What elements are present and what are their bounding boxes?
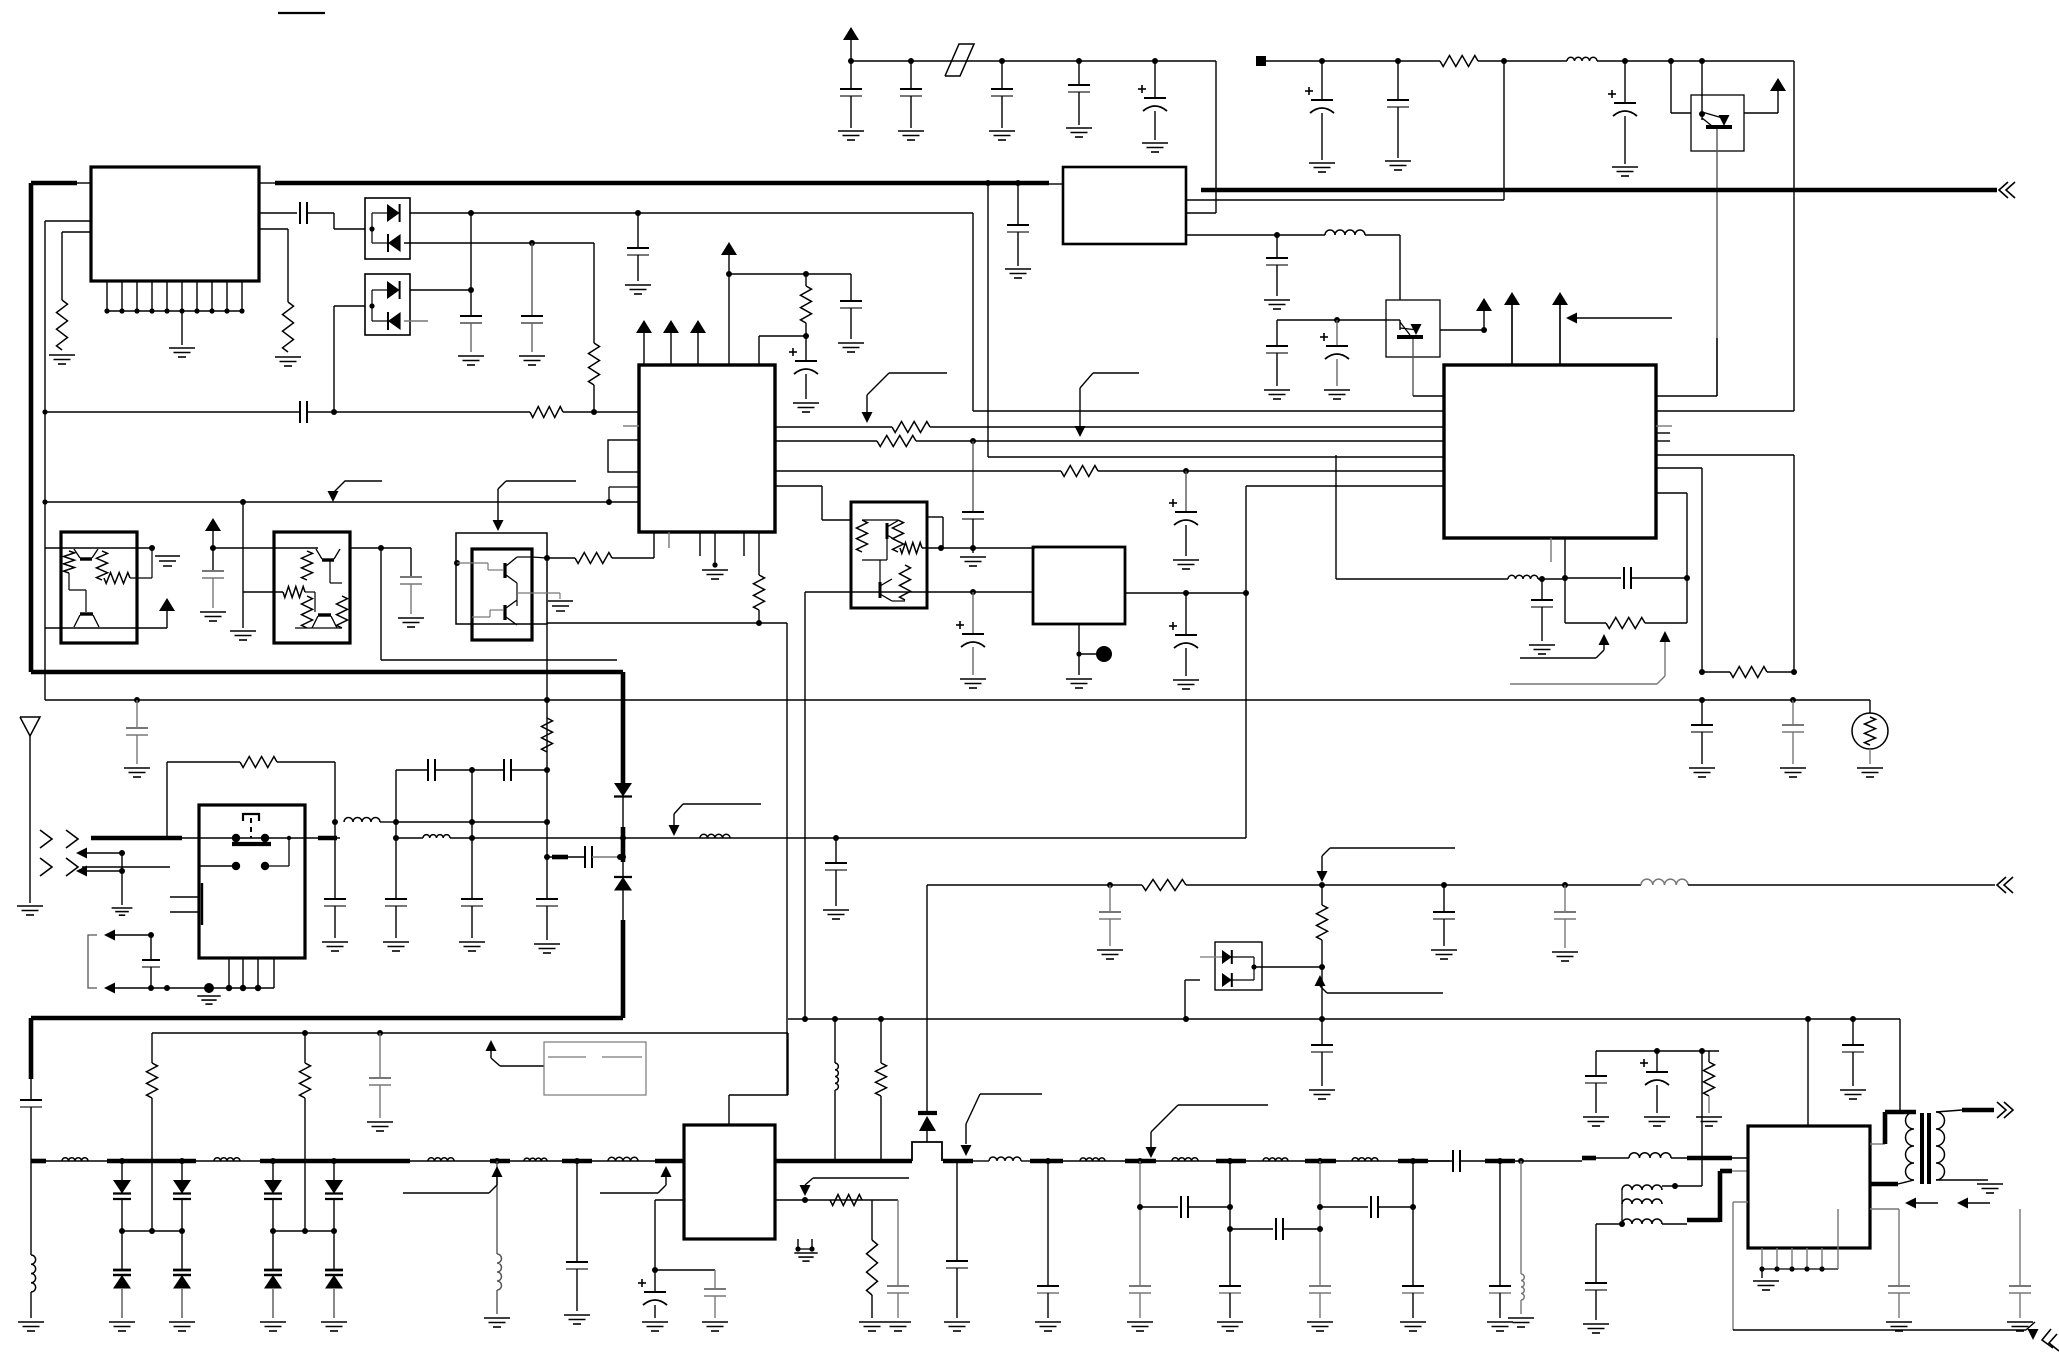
IC U3 xtal box <box>608 440 639 472</box>
tx frame horiz y672 <box>31 670 623 675</box>
connector chevron out-b <box>2042 1329 2059 1351</box>
diode D4 <box>388 312 401 330</box>
ground <box>275 357 301 366</box>
capacitor C27 <box>1782 725 1804 732</box>
wire <box>471 906 473 938</box>
node <box>756 620 762 626</box>
wire <box>654 1270 656 1292</box>
signal arrow callout <box>669 804 762 836</box>
node square marker <box>1256 56 1266 66</box>
power bus right <box>1201 188 1997 193</box>
transistor q51 <box>74 549 98 559</box>
wire U3 pin x654 link <box>653 532 655 558</box>
node <box>240 985 246 991</box>
wire q7 out <box>517 557 547 558</box>
wire <box>181 1231 183 1270</box>
transistor pack Q7 box <box>472 549 532 640</box>
wire y578 b <box>1631 577 1687 579</box>
ground <box>1264 390 1290 399</box>
wire <box>1565 622 1606 624</box>
wire <box>1001 96 1003 128</box>
resistor R10 <box>1061 466 1098 477</box>
wire <box>1761 1269 1763 1278</box>
ground <box>109 1322 135 1331</box>
node <box>1410 1204 1416 1210</box>
node <box>331 1228 337 1234</box>
signal arrow callout <box>961 1094 1043 1156</box>
node <box>494 1158 500 1164</box>
wire <box>1656 1085 1658 1113</box>
wire <box>1185 593 1187 635</box>
wire <box>272 1289 274 1318</box>
wire U6 bot pin <box>811 1239 813 1249</box>
node <box>544 767 550 773</box>
ground <box>1385 161 1411 170</box>
ground <box>18 1322 44 1331</box>
wire <box>1047 1293 1049 1318</box>
wire cap lead <box>1001 61 1003 89</box>
node <box>1045 1158 1051 1164</box>
wire y592 <box>805 591 1033 593</box>
wire vert x62 <box>61 232 63 300</box>
wire cap C13 lead <box>637 213 639 248</box>
vcc arrow <box>636 320 652 340</box>
capacitor C39 <box>1554 912 1576 919</box>
wire diode bus1 <box>122 1230 182 1232</box>
node <box>1774 1266 1779 1271</box>
wire <box>880 1096 882 1161</box>
wire q5 bottom rail <box>45 627 167 629</box>
inductor T1 sec-a <box>1622 1185 1662 1190</box>
wire <box>243 591 283 593</box>
wire rail corner down x1216 <box>1215 61 1217 213</box>
rf out stub <box>1962 1108 1994 1113</box>
capacitor C32 series <box>428 759 435 781</box>
wire U3 left pin y487 <box>609 487 639 502</box>
diode D-334a <box>325 1180 343 1194</box>
wire <box>212 548 214 571</box>
wire <box>1428 1160 1453 1162</box>
node <box>1274 232 1280 238</box>
node <box>1317 1158 1323 1164</box>
capacitor C1 <box>840 89 862 96</box>
wire Q1 right <box>1744 112 1778 114</box>
node <box>1791 669 1797 675</box>
wire rail y1019 <box>788 1018 1900 1020</box>
tx frame horiz y1018 <box>31 1016 623 1021</box>
wire <box>1185 648 1187 676</box>
diode D9 tri <box>919 1116 936 1131</box>
signal arrow callout <box>800 1178 910 1196</box>
vcc arrow <box>663 320 679 340</box>
resistor r <box>900 565 911 600</box>
capacitor C33 series <box>504 759 511 781</box>
node <box>148 985 154 991</box>
capacitor C13 <box>627 248 649 255</box>
resistor R13 <box>542 718 553 752</box>
wire x788 long <box>787 1033 789 1095</box>
rf bar <box>655 1159 684 1164</box>
capacitor C-lad1500 <box>1489 1286 1511 1293</box>
wire x1336 <box>1335 455 1337 579</box>
node <box>1137 1204 1143 1210</box>
node <box>331 1158 337 1164</box>
wire <box>1319 1293 1321 1318</box>
wire y579 <box>1336 578 1508 580</box>
resistor R4 <box>801 286 812 323</box>
wire bus y471 <box>775 470 1061 472</box>
relay contacts row1 <box>232 834 269 842</box>
wire <box>1792 700 1794 725</box>
transistor q62 <box>312 615 337 628</box>
wire bus y457 <box>988 456 1444 458</box>
capacitor C55 <box>1888 1286 1910 1293</box>
capacitor C52 electrolytic <box>1640 1059 1669 1085</box>
transistor pack Q5 box <box>61 532 137 643</box>
wire <box>1412 1161 1414 1286</box>
wire vert x335 <box>333 306 335 412</box>
wire bus thin <box>77 182 91 184</box>
capacitor C51 <box>1585 1076 1607 1083</box>
wire vert x1504 <box>1503 61 1505 200</box>
capacitor C31 <box>461 899 483 906</box>
wire <box>208 988 210 993</box>
wire U4 stub <box>1656 432 1670 434</box>
node <box>468 287 474 293</box>
node <box>1497 1158 1503 1164</box>
wire U4 bottom pin <box>1564 538 1566 578</box>
node <box>1183 590 1189 596</box>
diode D-182a <box>173 1180 191 1194</box>
wire <box>1230 1228 1273 1230</box>
wire <box>972 647 974 675</box>
wire <box>181 1161 183 1180</box>
wire x546 <box>546 700 548 899</box>
node pin junction <box>164 308 169 313</box>
ground <box>367 1122 393 1131</box>
wire <box>121 1289 123 1318</box>
wire q7 gnd tap <box>517 593 560 599</box>
wire x594 top <box>593 243 595 343</box>
wire vert x532 <box>531 243 533 316</box>
wire <box>1645 622 1687 624</box>
IC U7 <box>1748 1126 1870 1248</box>
diode D-334a bar2 <box>325 1198 343 1200</box>
node <box>1481 327 1487 333</box>
capacitor C-lad1048 <box>1037 1286 1059 1293</box>
transistor Q1 <box>1702 112 1732 127</box>
wire <box>942 517 944 548</box>
ground <box>625 285 651 294</box>
diode D9 <box>918 1111 937 1115</box>
capacitor C5 electrolytic <box>1138 85 1167 111</box>
wire <box>1671 1157 1748 1159</box>
wire y623 <box>547 622 787 624</box>
transistor q52 <box>74 614 99 627</box>
ground <box>859 1322 885 1331</box>
wire x1687 <box>1686 493 1688 578</box>
wire <box>150 967 152 988</box>
inductor L19 <box>1263 1158 1288 1161</box>
wire <box>1595 1051 1597 1076</box>
signal arrow callout <box>328 481 383 502</box>
wire <box>576 1161 578 1262</box>
signal arrow <box>1957 1198 1990 1209</box>
capacitor C54 <box>1842 1045 1864 1052</box>
wire <box>547 557 575 559</box>
thick jog a <box>1687 1218 1720 1223</box>
inductor L20 <box>1352 1158 1378 1161</box>
signal arrow callout <box>403 1166 503 1193</box>
relay contact bar <box>232 842 271 846</box>
wire <box>1936 1110 1962 1112</box>
thick feed horiz <box>1885 1110 1916 1115</box>
capacitor C40 <box>369 1078 391 1085</box>
wire <box>1564 578 1566 623</box>
wire U3 top pin <box>670 340 672 365</box>
wire <box>272 1231 274 1270</box>
wire <box>1378 1206 1413 1208</box>
node <box>803 333 809 339</box>
node rail-dot <box>999 58 1005 64</box>
wire <box>1936 1179 1988 1181</box>
resistor R2 <box>57 300 68 350</box>
ground <box>960 679 986 688</box>
wire U1 right pin2 <box>259 228 288 230</box>
node <box>620 854 626 860</box>
wire x1246 <box>1245 486 1247 838</box>
inductor T1 sec-c <box>1622 1219 1662 1224</box>
ground <box>1307 1322 1333 1331</box>
wire <box>1319 1161 1321 1286</box>
diode D8 <box>1222 973 1232 987</box>
wire <box>1538 578 1565 580</box>
wire <box>410 584 412 614</box>
capacitor C37 <box>1099 912 1121 919</box>
wire <box>1520 1161 1522 1274</box>
ground <box>989 131 1015 140</box>
diode D-122b bars <box>113 1270 131 1275</box>
IC U1 <box>91 167 259 281</box>
wire <box>871 1200 873 1240</box>
wire <box>121 853 123 905</box>
wire U5 pin y593 <box>1125 592 1246 594</box>
capacitor C23 electrolytic <box>1169 622 1198 648</box>
wire rail y61 b <box>1266 60 1440 62</box>
node <box>302 1030 308 1036</box>
wire winding link <box>1621 1190 1623 1224</box>
wire U4 top pin V5 <box>1559 305 1561 365</box>
wire net B <box>404 242 532 244</box>
inductor L18 <box>1172 1158 1198 1161</box>
wire rf row4 <box>31 1160 684 1162</box>
connector chevron out <box>1997 1102 2013 1118</box>
wire x1900 <box>1899 1019 1901 1112</box>
node <box>1076 651 1081 656</box>
diode pack D3 box <box>365 274 410 335</box>
wire Q1 emitter <box>1716 129 1718 396</box>
capacitor C50 <box>1311 1045 1333 1052</box>
wire rail y61 a <box>851 60 1216 62</box>
wire <box>1185 525 1187 556</box>
wire <box>1200 956 1222 958</box>
capacitor C56 <box>2009 1286 2031 1293</box>
ground <box>1066 679 1092 688</box>
wire rail y700 <box>137 699 1793 701</box>
wire <box>151 1098 153 1231</box>
wire x1733 <box>1732 1202 1734 1330</box>
wire y770 corner <box>395 770 397 822</box>
transistor pack Q7 outer <box>456 533 547 624</box>
node <box>1319 882 1325 888</box>
node <box>795 1246 800 1251</box>
thick jog c <box>1720 1169 1732 1174</box>
wire y502 <box>45 501 639 503</box>
capacitor C58 <box>400 577 422 584</box>
node pin junction <box>209 308 214 313</box>
node <box>1227 1226 1233 1232</box>
wire U3 top pin x759 <box>758 336 760 365</box>
wire <box>380 821 396 823</box>
wire U1 pin <box>181 281 183 311</box>
ground <box>898 131 924 140</box>
wire U1 right pin1 <box>259 212 297 214</box>
ground <box>124 768 150 777</box>
node <box>591 409 597 415</box>
wire U6 right y1200 <box>775 1199 898 1201</box>
rf bar <box>1216 1159 1246 1164</box>
wire ecap lead <box>1336 320 1338 346</box>
ground U1 <box>169 348 195 357</box>
wire <box>1443 919 1445 946</box>
wire y548 <box>922 547 1035 549</box>
node <box>393 835 399 841</box>
resistor R14 <box>240 757 277 768</box>
ground <box>459 942 485 951</box>
wire Q2 emitter <box>1412 339 1414 396</box>
wire <box>333 213 335 229</box>
resistor r63 <box>302 596 313 628</box>
wire <box>805 274 807 286</box>
wire <box>835 870 837 906</box>
inductor L12 <box>524 1158 547 1161</box>
wire U3 bot pin <box>714 532 716 565</box>
node <box>606 499 612 505</box>
ground U6 <box>794 1253 817 1261</box>
node <box>620 835 626 841</box>
wire <box>1701 732 1703 764</box>
wire y1051 <box>1596 1050 1719 1052</box>
power bus segment <box>31 181 77 186</box>
wire <box>956 1161 958 1261</box>
capacitor C26 <box>1691 725 1713 732</box>
node pin junction <box>104 308 109 313</box>
wire <box>136 735 138 764</box>
node <box>1107 882 1113 888</box>
wire bypass up2 <box>334 762 336 822</box>
wire <box>910 96 912 128</box>
diode D-273b <box>264 1275 282 1289</box>
wire <box>30 1292 32 1318</box>
wire U4 right y396 <box>1656 395 1717 397</box>
ground <box>1583 1324 1609 1333</box>
node <box>469 767 475 773</box>
wire L1 cont <box>396 821 547 823</box>
connector chevron rx <box>1997 877 2013 893</box>
tx diode col a <box>621 672 626 783</box>
wire <box>1397 107 1399 158</box>
wire <box>1898 1209 1900 1286</box>
signal arrow callout <box>1146 1105 1269 1158</box>
wire <box>1321 940 1323 1019</box>
wire <box>1232 957 1257 980</box>
wire <box>1460 1160 1485 1162</box>
ground <box>1005 269 1031 278</box>
node <box>148 932 154 938</box>
wire q7 base1 <box>457 563 503 570</box>
rf bar <box>107 1159 196 1164</box>
connector chevron bus-right <box>1999 182 2015 198</box>
signal arrow callout <box>1315 975 1444 993</box>
capacitor C36 <box>825 863 847 870</box>
wire <box>654 1305 656 1318</box>
node <box>240 499 246 505</box>
ground <box>49 355 75 364</box>
wire U1 pin <box>226 281 228 311</box>
ground <box>1217 1322 1243 1331</box>
node <box>712 562 717 567</box>
wire x1702 fb <box>1701 468 1703 672</box>
capacitor C15 electrolytic <box>1320 333 1349 359</box>
transformer T2 core <box>1922 1113 1929 1184</box>
diode D-273a <box>264 1180 282 1194</box>
wire <box>637 255 639 281</box>
wire y274 <box>729 273 851 275</box>
node <box>1227 1204 1233 1210</box>
wire y770 <box>396 769 427 771</box>
wire U4 right y455 <box>1656 454 1794 456</box>
node <box>393 819 399 825</box>
node <box>1410 1158 1416 1164</box>
transistor q72 <box>505 600 517 625</box>
capacitor C42 electrolytic <box>638 1279 667 1305</box>
wire U3 top pin <box>643 340 645 365</box>
wire U7 pin y1144 <box>1870 1143 1885 1145</box>
wire <box>1365 234 1400 236</box>
wire <box>150 935 152 960</box>
node <box>377 1030 383 1036</box>
resistor r <box>893 520 904 552</box>
inductor L21 <box>1521 1274 1524 1300</box>
ground <box>1689 768 1715 777</box>
wire <box>396 837 423 839</box>
ground antenna <box>17 906 43 915</box>
wire vert x471 <box>470 213 472 316</box>
wire U7 pin y1202 <box>1733 1201 1748 1203</box>
wire U1 left pin1 <box>45 220 91 222</box>
vcc arrow V3 <box>1476 298 1492 330</box>
wire corner x45-y700 <box>45 699 137 701</box>
capacitor C35 <box>20 1100 42 1107</box>
wire <box>1078 92 1080 125</box>
capacitor C29 <box>324 899 346 906</box>
wire vert x1018 <box>1017 183 1019 225</box>
node <box>809 1246 814 1251</box>
wire <box>1541 579 1543 600</box>
wire <box>1229 1293 1231 1318</box>
capacitor C-lad1320 <box>1309 1286 1331 1293</box>
wire <box>496 1161 498 1254</box>
